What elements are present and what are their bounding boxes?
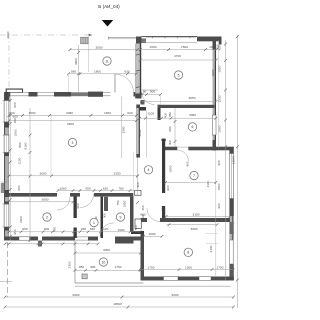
top dim row y73.8: [69, 73, 137, 75]
bottom wall seg b: [42, 237, 75, 241]
svg-text:900: 900: [186, 161, 190, 166]
lower wing wall top end outline: [135, 219, 141, 229]
svg-text:7: 7: [193, 174, 195, 178]
svg-text:100: 100: [161, 206, 165, 211]
svg-text:1: 1: [93, 221, 95, 225]
wing right wall cap bottom: [213, 140, 217, 151]
bottom overall dim row 2: [5, 306, 234, 308]
svg-text:5160: 5160: [23, 142, 27, 149]
room5/6 wall corner stub: [158, 105, 161, 120]
room label 7: [190, 171, 198, 179]
room label 6: [188, 123, 196, 131]
room9 right wall: [130, 197, 134, 232]
section marker triangle: [102, 20, 114, 27]
terrace column: [82, 274, 87, 279]
left wing top wall window a: [11, 92, 29, 94]
bottom dim terrace: [75, 269, 141, 271]
svg-text:9: 9: [120, 215, 122, 219]
axis cross line bottom-left: [0, 280, 12, 282]
left wing top wall pier e: [88, 92, 103, 97]
svg-text:5200: 5200: [172, 293, 179, 297]
wing right wall window: [212, 115, 216, 135]
lower bottom wall seg a: [141, 277, 164, 281]
room3 dim row a: [9, 114, 137, 116]
wing door leaf line: [142, 89, 159, 91]
room label 3: [68, 138, 76, 146]
lower bottom wall window a: [164, 277, 179, 281]
room7 dim 3100: [166, 216, 230, 218]
svg-text:1100: 1100: [147, 112, 154, 116]
svg-text:900: 900: [44, 227, 49, 231]
svg-text:1700: 1700: [217, 265, 224, 269]
room6 top wall: [158, 105, 215, 108]
wing door dim row: [142, 94, 161, 96]
room2 right wall upper: [74, 197, 77, 219]
room label 2: [43, 213, 51, 221]
left wing top-left corner parapet: [6, 89, 22, 103]
svg-text:900: 900: [76, 203, 80, 208]
wing top wall inner line: [146, 42, 197, 44]
svg-text:1800: 1800: [104, 111, 111, 115]
svg-text:600: 600: [17, 185, 21, 190]
svg-text:900: 900: [217, 160, 221, 165]
svg-text:950: 950: [168, 126, 172, 131]
svg-text:3600: 3600: [40, 172, 47, 176]
svg-text:1300: 1300: [185, 265, 192, 269]
svg-text:500: 500: [134, 225, 138, 230]
left wall pier 4: [4, 190, 9, 197]
room5 dim 3650: [142, 101, 217, 103]
room9 top wall: [94, 193, 134, 197]
room8 top wall right: [160, 218, 230, 222]
left wall window sill marks: [3, 100, 10, 102]
room label 11: [103, 57, 111, 65]
svg-text:Б (АИ_04): Б (АИ_04): [98, 4, 120, 9]
svg-text:6: 6: [192, 125, 194, 129]
bottom wall seg d: [88, 237, 98, 241]
lower bottom wall seg c: [211, 277, 234, 281]
svg-text:2350: 2350: [114, 172, 121, 176]
bottom wall seg c window: [75, 236, 88, 238]
lower right wall cap b: [229, 199, 233, 217]
interior wall left-wing/corridor x136.5: [136, 105, 139, 158]
svg-text:1520: 1520: [211, 69, 215, 76]
svg-text:4: 4: [148, 168, 150, 172]
svg-text:10: 10: [101, 260, 105, 264]
svg-text:2300: 2300: [67, 261, 71, 268]
svg-text:400: 400: [141, 205, 145, 210]
axis dash-dot line top-left: [0, 34, 90, 36]
left wall window 1: [4, 101, 9, 123]
room8 top wall left: [141, 218, 148, 222]
left wing top wall segment f: [103, 92, 111, 94]
svg-text:2430: 2430: [209, 245, 213, 252]
svg-text:1100: 1100: [18, 157, 22, 164]
svg-text:13570: 13570: [232, 155, 236, 164]
corridor dim 1000: [144, 235, 163, 237]
svg-text:5: 5: [178, 73, 180, 77]
lower right wall cap c: [229, 222, 233, 234]
wing top wall window glazing: [146, 37, 196, 39]
right dim col upper: [225, 40, 227, 280]
svg-text:1800: 1800: [169, 165, 173, 172]
terrace dim 3000: [75, 252, 141, 254]
column symbol small hatched square: [81, 37, 89, 44]
svg-text:600: 600: [9, 111, 14, 115]
svg-text:300: 300: [168, 140, 172, 145]
room3 ext line x51: [50, 115, 52, 175]
svg-text:1500: 1500: [29, 111, 36, 115]
svg-text:3000: 3000: [191, 227, 198, 231]
svg-text:300: 300: [103, 213, 107, 218]
lower right wall band: [230, 147, 234, 280]
wing right wall cap top: [213, 41, 217, 50]
lower bottom wall seg b: [178, 277, 199, 281]
svg-text:400: 400: [164, 113, 168, 118]
room label 9: [116, 213, 124, 221]
room2 dim 3600: [9, 201, 74, 203]
svg-text:2110: 2110: [206, 180, 210, 187]
axis dashed vertical left-top: [8, 33, 10, 88]
terrace left edge: [74, 241, 76, 283]
room3 dim 3600 row: [9, 175, 138, 177]
svg-text:6900: 6900: [73, 293, 80, 297]
left wall sill mark mid: [2, 181, 9, 183]
top dim row 1 left: [70, 49, 140, 51]
right ext line lower: [215, 151, 217, 277]
left dim col inner: [9, 93, 11, 241]
corridor top wall stub: [140, 107, 147, 111]
room2 right wall lower: [74, 228, 77, 239]
room6 interior dim line x175: [174, 108, 176, 146]
svg-text:630: 630: [124, 70, 129, 74]
svg-text:6600: 6600: [67, 122, 74, 126]
svg-text:900: 900: [136, 182, 140, 187]
svg-text:750: 750: [116, 200, 120, 205]
left bottom small dim: [5, 243, 98, 245]
wing left wall bottom cap: [135, 94, 141, 99]
corridor ext line x133.3: [132, 152, 134, 196]
left wall corner top: [4, 92, 9, 101]
svg-text:780: 780: [118, 186, 123, 190]
svg-text:1500: 1500: [218, 125, 222, 132]
svg-text:900: 900: [85, 186, 90, 190]
room1/9 wall: [101, 197, 104, 238]
rooms wall y192 mid part: [70, 193, 80, 197]
door arc room7: [177, 150, 188, 161]
room label 1: [90, 218, 98, 226]
left wall pier 3: [4, 153, 9, 157]
wing right wall band: [213, 41, 216, 151]
left wall window 4: [4, 204, 9, 227]
svg-text:2: 2: [46, 215, 48, 219]
terrace bottom edge: [75, 282, 144, 284]
door arc room1: [80, 194, 94, 208]
room7 top wall right part: [188, 147, 230, 151]
room7 mid dim line: [166, 182, 216, 184]
svg-text:620: 620: [127, 111, 132, 115]
svg-text:1500: 1500: [217, 183, 221, 190]
left wing top wall pier a: [5, 92, 11, 97]
svg-text:950: 950: [22, 227, 27, 231]
wing top wall pier right thick: [197, 37, 222, 42]
room9 top wall end outline: [135, 190, 142, 195]
bottom overall dim row 1: [5, 296, 234, 298]
svg-text:450: 450: [218, 45, 222, 50]
room label 5: [174, 71, 182, 79]
svg-text:1000: 1000: [149, 232, 156, 236]
svg-text:3390: 3390: [122, 126, 126, 133]
lower bottom wall window b: [199, 277, 211, 281]
svg-text:850: 850: [18, 142, 22, 147]
svg-text:600: 600: [13, 102, 17, 107]
svg-text:3000: 3000: [96, 45, 103, 49]
wing top wall corner left: [136, 37, 142, 44]
left wing top wall pier g (door jamb to corner): [134, 92, 142, 97]
svg-text:3: 3: [72, 141, 74, 145]
svg-text:900: 900: [90, 265, 95, 269]
svg-text:960: 960: [140, 213, 145, 217]
svg-text:1750: 1750: [148, 265, 155, 269]
wing top wall jamb: [142, 38, 147, 43]
left wall window 2: [4, 135, 9, 153]
svg-text:900: 900: [166, 185, 170, 190]
bottom wall step stub: [38, 241, 42, 247]
leader arrow: [89, 34, 93, 36]
room7 left wall: [162, 139, 165, 193]
svg-text:1500: 1500: [218, 65, 222, 72]
svg-text:3380: 3380: [189, 113, 196, 117]
rooms wall y192 left part: [5, 193, 57, 197]
wing door jamb stub: [141, 100, 145, 105]
svg-text:250: 250: [81, 227, 86, 231]
room label 8: [184, 248, 192, 256]
bottom wall seg a: [5, 237, 38, 241]
wing top wall window outer line: [142, 35, 198, 37]
top dim vertical x78.5: [78, 45, 80, 93]
svg-text:3100: 3100: [193, 212, 200, 216]
svg-text:1530: 1530: [218, 95, 222, 102]
wing left wall upper band: [135, 44, 140, 99]
left wall cap 5: [4, 202, 9, 205]
axis dashed vertical bottom-left: [6, 242, 8, 297]
left wing top wall segment d: [71, 92, 88, 96]
lower right wall window a: [229, 154, 233, 199]
lower right wall cap a: [229, 147, 233, 154]
room7 door gap lines: [177, 146, 188, 148]
right dim col outer: [236, 35, 238, 308]
right ext line upper: [218, 40, 220, 148]
bottom interior dim row: [9, 231, 140, 233]
svg-text:3650: 3650: [189, 96, 196, 100]
left wing top wall window b: [38, 92, 55, 94]
door arc terrace(into room1): [100, 223, 114, 237]
chimney block outside left wall: [1, 183, 4, 193]
svg-text:8: 8: [187, 251, 189, 255]
canopy line over entrance: [109, 36, 137, 38]
left dim col outer: [29, 108, 31, 241]
svg-text:1750: 1750: [115, 265, 122, 269]
left wing top wall pier c: [54, 92, 71, 97]
svg-text:650: 650: [90, 227, 95, 231]
left wall corner bottom: [4, 237, 9, 241]
room1 top dim row: [58, 190, 137, 192]
svg-text:650: 650: [13, 118, 17, 123]
svg-text:1600: 1600: [150, 45, 157, 49]
svg-text:900: 900: [217, 203, 221, 208]
corridor dim line x137.5: [137, 158, 139, 197]
svg-text:350: 350: [168, 112, 172, 117]
bottom wall seg e thick chunk: [115, 237, 134, 244]
room8 subwall dim row: [167, 224, 218, 226]
svg-text:950: 950: [79, 265, 84, 269]
svg-text:11: 11: [105, 59, 109, 63]
left wall pier 5: [4, 227, 9, 231]
svg-text:1500: 1500: [14, 129, 18, 136]
room6/7 bottom wall: [163, 147, 178, 151]
lower right wall cap d: [229, 264, 233, 280]
svg-text:2200: 2200: [19, 216, 23, 223]
svg-text:2630: 2630: [138, 129, 142, 136]
svg-text:3600: 3600: [42, 198, 49, 202]
svg-text:1120: 1120: [102, 227, 109, 231]
svg-text:19500: 19500: [113, 302, 122, 306]
svg-text:1660: 1660: [60, 186, 67, 190]
door arc room8: [147, 209, 160, 222]
top dim row 2: [140, 59, 216, 61]
room3 dim row b: [9, 120, 137, 122]
room7 left wall stub lower: [162, 206, 165, 218]
svg-text:1800: 1800: [94, 70, 101, 74]
door arc wing entry: [142, 92, 155, 105]
svg-text:1500: 1500: [118, 228, 125, 232]
duct block: [104, 197, 108, 211]
leader vertical line: [88, 35, 90, 72]
top dim row 1 right: [140, 49, 216, 51]
room9 bottom stub: [131, 231, 144, 234]
ext line x160.5: [160, 95, 162, 105]
svg-text:620: 620: [103, 186, 108, 190]
ground line: [75, 285, 231, 287]
room8 light lines: [206, 233, 218, 235]
door arc entrance top: [115, 74, 134, 93]
left wall pier 2: [4, 122, 9, 128]
svg-text:3800: 3800: [74, 58, 78, 65]
bottom wall seg f junction: [134, 237, 144, 241]
door arc room2: [57, 197, 70, 210]
wing top wall mullion ticks: [152, 36, 154, 38]
room label 4: [144, 166, 152, 174]
wing left wall hatch ticks: [136, 54, 141, 55]
svg-text:4700: 4700: [174, 54, 181, 58]
svg-text:3000: 3000: [103, 248, 110, 252]
extension line x68.5: [68, 74, 70, 92]
svg-text:1500: 1500: [181, 45, 188, 49]
room6 dim row: [140, 117, 216, 119]
svg-text:2080: 2080: [66, 111, 73, 115]
svg-text:430: 430: [53, 227, 57, 232]
room label 10: [99, 258, 107, 266]
left wing top wall pier b: [29, 92, 38, 97]
lower wing left wall upper: [141, 232, 145, 281]
bottom dim room8: [140, 269, 234, 271]
left wall band: [4, 92, 9, 241]
svg-text:580: 580: [71, 70, 76, 74]
svg-text:1950: 1950: [123, 200, 127, 207]
bottom wall window a: [19, 237, 30, 240]
lower right wall window b: [230, 240, 234, 264]
